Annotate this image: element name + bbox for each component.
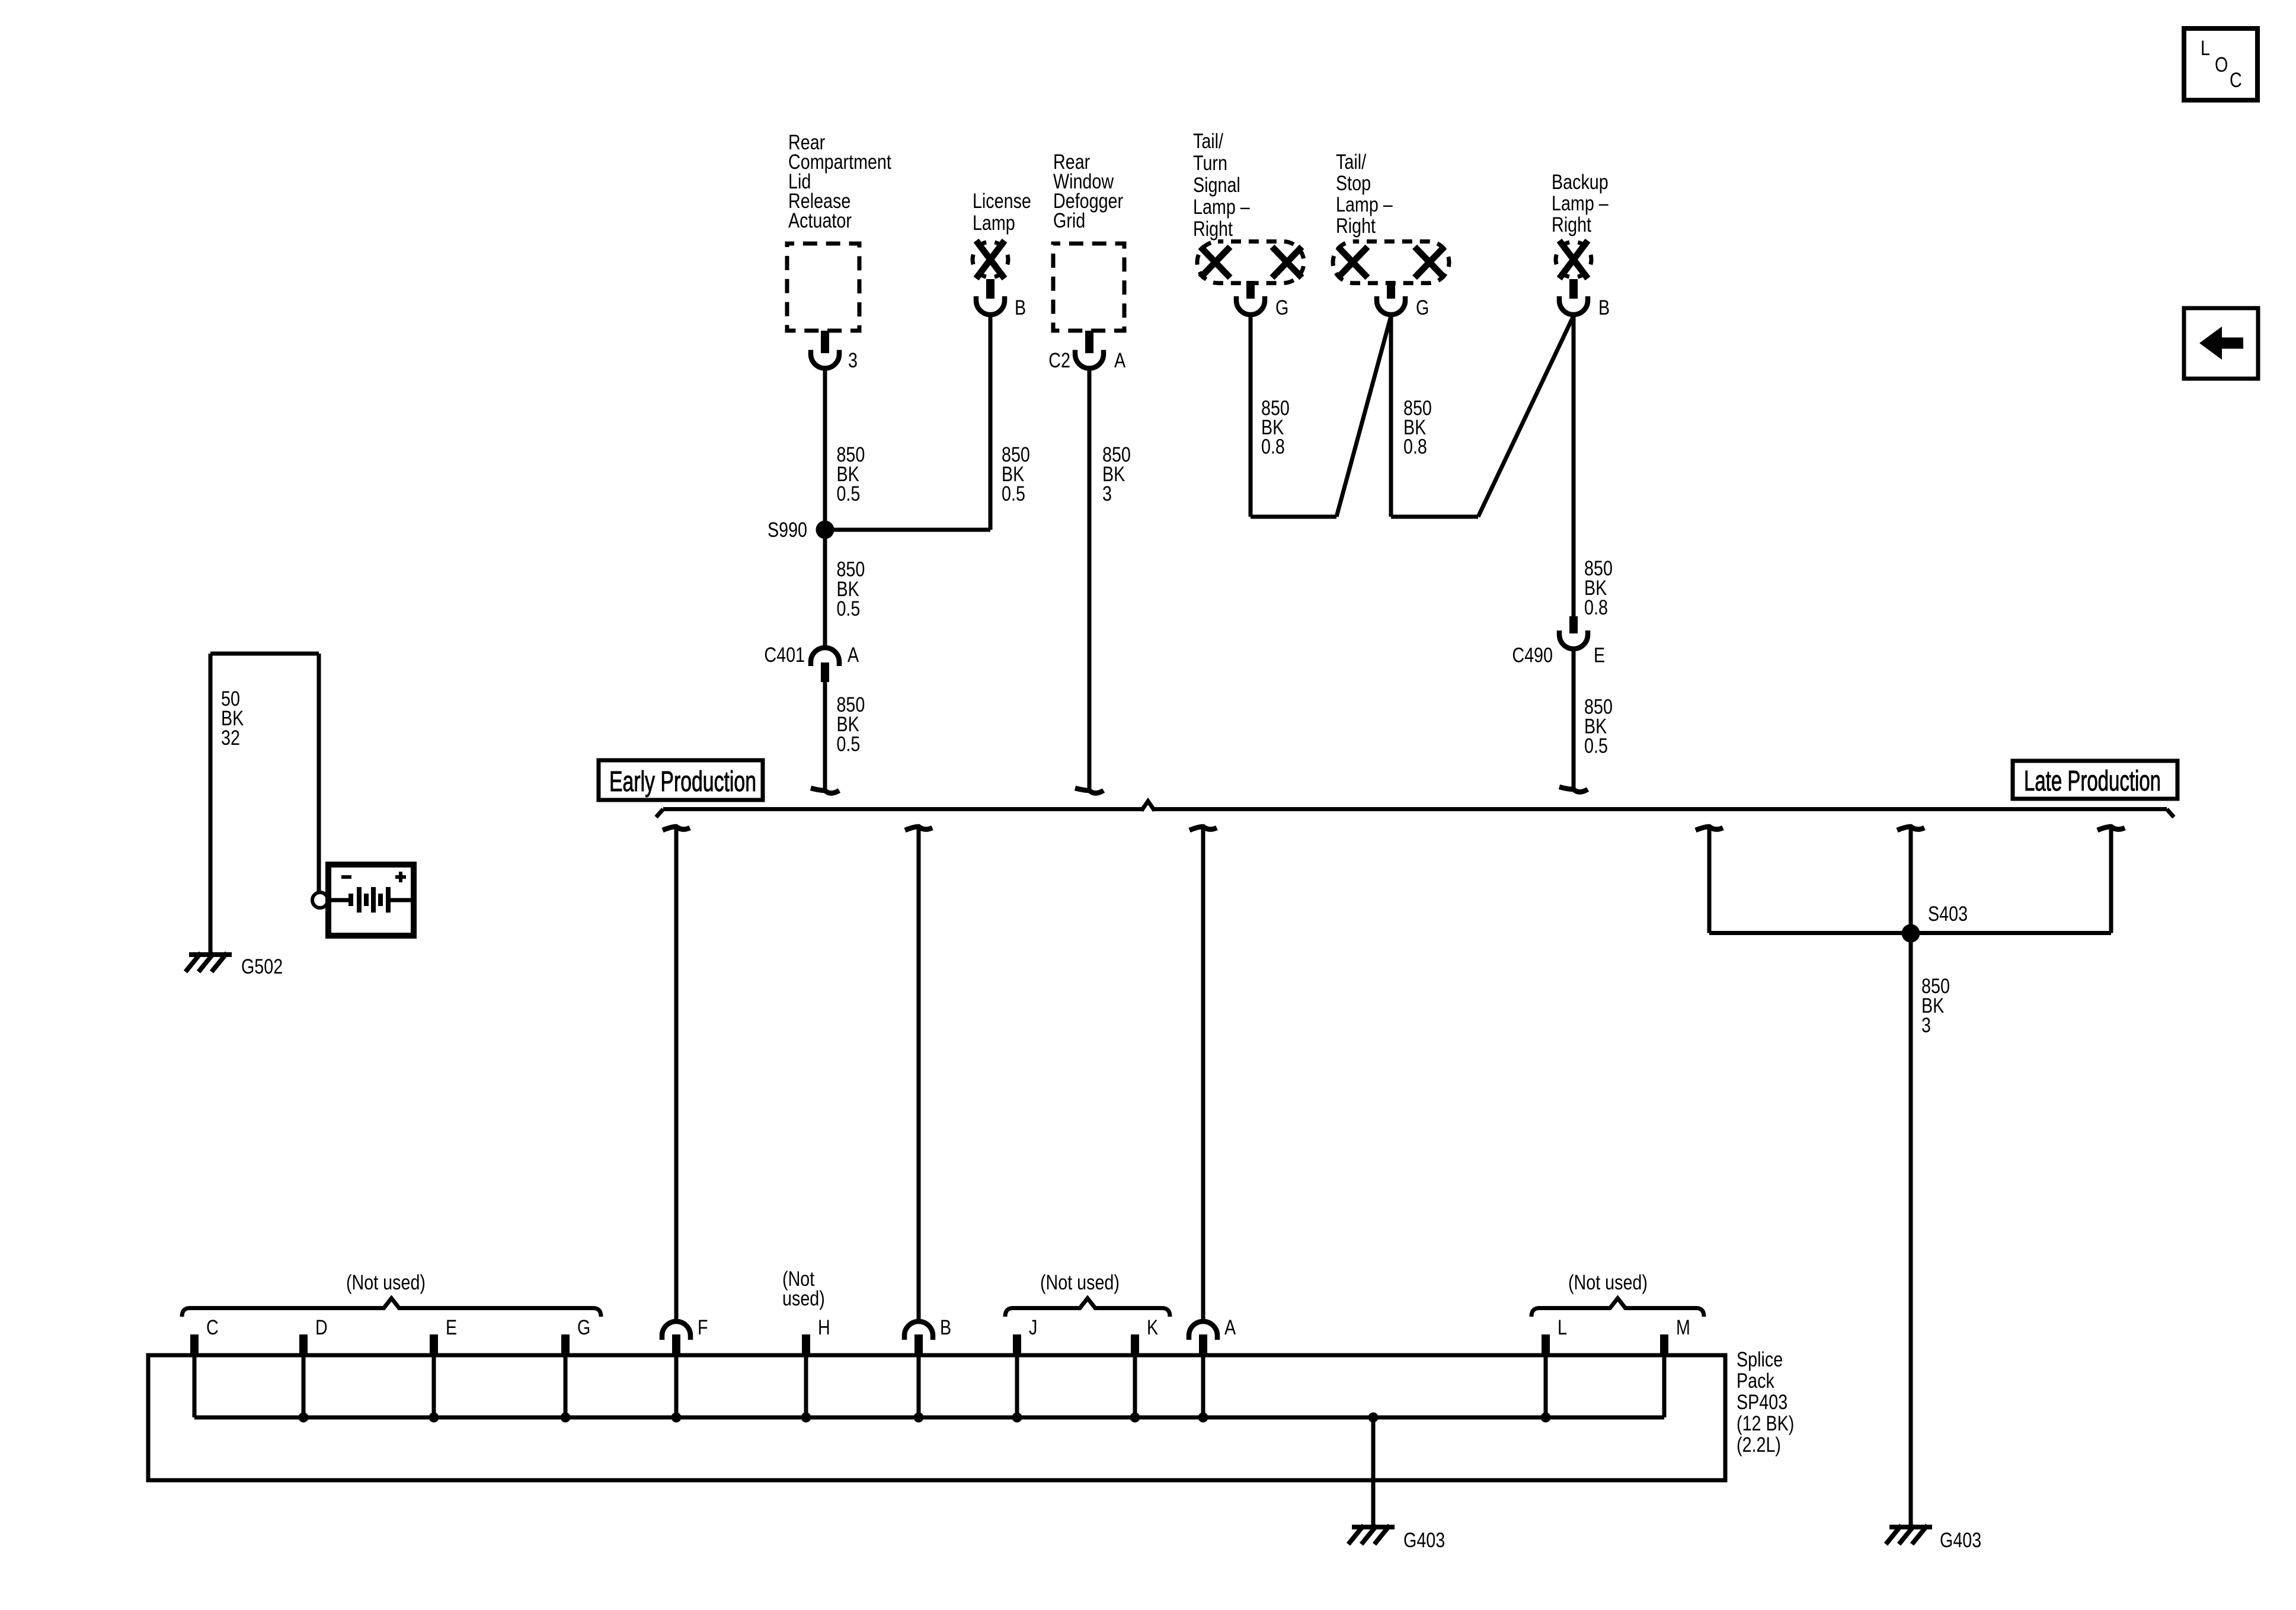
svg-text:E: E: [446, 1315, 457, 1339]
svg-text:C401: C401: [764, 643, 805, 666]
svg-text:0.5: 0.5: [836, 482, 860, 505]
svg-text:Turn: Turn: [1193, 151, 1227, 174]
svg-text:B: B: [940, 1315, 951, 1339]
svg-text:32: 32: [221, 726, 240, 749]
svg-text:Early Production: Early Production: [609, 766, 756, 798]
svg-text:J: J: [1029, 1315, 1037, 1339]
svg-text:(Not used): (Not used): [1568, 1270, 1648, 1294]
svg-text:G403: G403: [1940, 1528, 1981, 1551]
svg-text:F: F: [698, 1315, 708, 1339]
svg-text:0.8: 0.8: [1261, 435, 1285, 458]
svg-text:SP403: SP403: [1737, 1390, 1787, 1413]
svg-text:Lamp –: Lamp –: [1193, 195, 1250, 218]
svg-text:0.8: 0.8: [1584, 596, 1608, 619]
svg-text:G403: G403: [1403, 1528, 1445, 1551]
svg-text:E: E: [1594, 644, 1605, 667]
svg-text:Right: Right: [1336, 214, 1376, 237]
svg-text:B: B: [1598, 296, 1610, 319]
svg-text:G: G: [1416, 296, 1429, 319]
svg-text:S403: S403: [1928, 902, 1968, 925]
svg-text:K: K: [1147, 1315, 1158, 1339]
svg-text:0.8: 0.8: [1403, 435, 1427, 458]
svg-text:Right: Right: [1552, 213, 1591, 236]
svg-text:Late Production: Late Production: [2024, 766, 2161, 797]
svg-text:A: A: [848, 643, 859, 666]
svg-text:L: L: [2201, 36, 2210, 59]
svg-text:0.5: 0.5: [836, 732, 860, 756]
svg-text:G502: G502: [241, 955, 283, 978]
svg-text:Actuator: Actuator: [788, 209, 852, 232]
svg-text:D: D: [315, 1315, 328, 1339]
svg-text:Tail/: Tail/: [1193, 129, 1223, 152]
svg-text:Lamp –: Lamp –: [1552, 191, 1609, 215]
svg-text:Grid: Grid: [1053, 209, 1085, 232]
svg-text:0.5: 0.5: [1584, 734, 1608, 757]
svg-text:L: L: [1558, 1315, 1567, 1339]
svg-text:0.5: 0.5: [836, 597, 860, 620]
svg-text:C490: C490: [1512, 644, 1553, 667]
svg-text:A: A: [1224, 1315, 1236, 1339]
svg-text:Stop: Stop: [1336, 171, 1371, 194]
svg-text:Right: Right: [1193, 217, 1233, 240]
svg-text:License: License: [973, 189, 1031, 212]
svg-text:H: H: [818, 1315, 830, 1339]
svg-text:3: 3: [848, 348, 858, 372]
svg-text:(2.2L): (2.2L): [1737, 1433, 1781, 1456]
svg-text:Signal: Signal: [1193, 173, 1240, 196]
svg-text:O: O: [2215, 53, 2228, 76]
svg-text:(Not used): (Not used): [1040, 1270, 1120, 1294]
svg-text:S990: S990: [768, 518, 807, 541]
svg-text:Backup: Backup: [1552, 170, 1609, 193]
svg-text:C: C: [2230, 68, 2242, 91]
svg-text:C2: C2: [1048, 348, 1070, 372]
svg-text:3: 3: [1102, 482, 1112, 505]
svg-text:Pack: Pack: [1737, 1369, 1775, 1392]
svg-text:A: A: [1114, 348, 1126, 372]
svg-text:Lamp –: Lamp –: [1336, 193, 1393, 216]
svg-text:B: B: [1015, 296, 1026, 319]
svg-text:M: M: [1676, 1315, 1690, 1339]
svg-text:C: C: [206, 1315, 219, 1339]
svg-text:used): used): [782, 1286, 825, 1310]
svg-text:(12 BK): (12 BK): [1737, 1411, 1794, 1435]
svg-text:G: G: [577, 1315, 590, 1339]
svg-text:0.5: 0.5: [1002, 482, 1025, 505]
svg-text:Splice: Splice: [1737, 1347, 1783, 1371]
svg-text:Tail/: Tail/: [1336, 150, 1366, 173]
svg-text:Lamp: Lamp: [973, 211, 1015, 234]
svg-text:3: 3: [1921, 1013, 1931, 1036]
svg-text:G: G: [1275, 296, 1288, 319]
svg-text:(Not used): (Not used): [346, 1270, 426, 1294]
